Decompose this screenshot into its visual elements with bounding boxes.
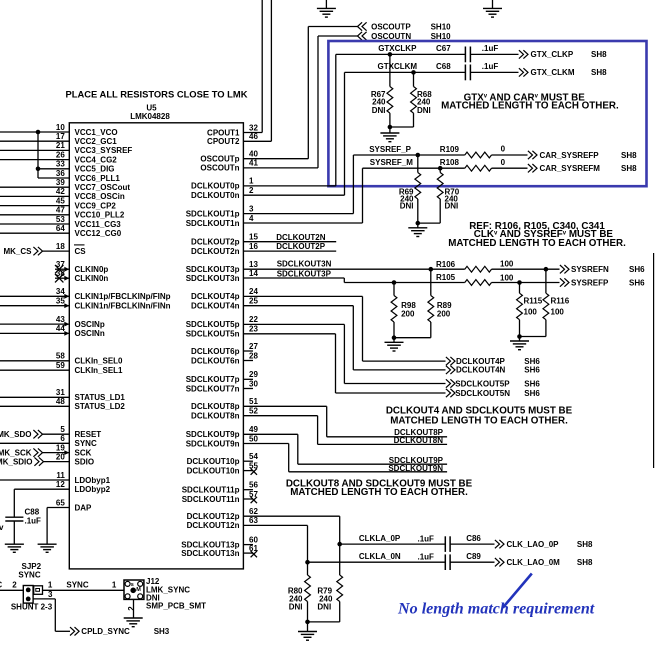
svg-text:DCLKOUT4p: DCLKOUT4p (191, 292, 240, 301)
svg-text:VCC6_PLL1: VCC6_PLL1 (75, 174, 121, 183)
svg-text:SH10: SH10 (431, 32, 452, 41)
svg-text:42: 42 (56, 187, 65, 196)
wire R106 to SYSREFN (492, 268, 560, 270)
svg-text:100: 100 (551, 307, 565, 316)
wire SDCLKOUT9P (243, 433, 297, 435)
svg-text:.1uF: .1uF (482, 62, 499, 71)
svg-text:CLKLA_0N: CLKLA_0N (359, 552, 401, 561)
resistor R67 (389, 54, 391, 86)
svg-text:17: 17 (56, 132, 65, 141)
svg-text:SDCLKOUT11p: SDCLKOUT11p (182, 486, 240, 495)
svg-text:4: 4 (249, 214, 254, 223)
svg-text:30: 30 (249, 379, 258, 388)
junction SYSREFP R115 (517, 280, 522, 285)
svg-text:SH8: SH8 (591, 68, 607, 77)
sheet frame edge (653, 253, 655, 468)
svg-text:OSCINn: OSCINn (75, 329, 105, 338)
svg-text:VCC5_DIG: VCC5_DIG (75, 165, 115, 174)
svg-text:SDCLKOUT11n: SDCLKOUT11n (182, 495, 240, 504)
svg-text:VCC7_OSCout: VCC7_OSCout (75, 183, 131, 192)
svg-text:56: 56 (249, 481, 258, 490)
svg-text:DCLKOUT10p: DCLKOUT10p (187, 457, 240, 466)
junction SDCLKOUT3P R98 (392, 280, 397, 285)
svg-text:VCC4_CG2: VCC4_CG2 (75, 155, 118, 164)
svg-text:SYNC: SYNC (18, 571, 40, 580)
svg-text:24: 24 (249, 287, 258, 296)
svg-text:MK_SCK: MK_SCK (0, 448, 32, 457)
svg-text:VCC1_VCO: VCC1_VCO (75, 128, 118, 137)
wire LDObyp2 to C88 (14, 488, 69, 490)
svg-text:DCLKOUT2p: DCLKOUT2p (191, 238, 240, 247)
svg-text:VCC10_PLL2: VCC10_PLL2 (75, 211, 125, 220)
resistor R79 (339, 544, 341, 575)
svg-text:SH10: SH10 (431, 22, 452, 31)
blue pointer line (503, 574, 532, 608)
resistor R70 (439, 168, 441, 172)
svg-text:100: 100 (524, 307, 538, 316)
svg-text:.1uF: .1uF (25, 517, 42, 526)
svg-text:SH6: SH6 (524, 379, 540, 388)
off-page OSCOUTP (362, 22, 367, 30)
off-page CAR_SYSREFP (528, 151, 533, 159)
svg-text:LDObyp2: LDObyp2 (75, 485, 111, 494)
svg-text:1: 1 (112, 580, 117, 589)
svg-text:53: 53 (56, 215, 65, 224)
svg-text:OSCOUTp: OSCOUTp (200, 155, 239, 164)
svg-text:54: 54 (249, 452, 258, 461)
wire R109 to CAR_SYSREFP (492, 154, 528, 156)
svg-text:DCLKOUT2P: DCLKOUT2P (276, 242, 326, 251)
svg-text:SH3: SH3 (154, 627, 170, 636)
svg-text:28: 28 (249, 351, 258, 360)
junction R67 ground (388, 125, 393, 130)
svg-text:58: 58 (56, 352, 65, 361)
off-page DCLKOUT4N (446, 366, 451, 374)
svg-text:LMK04828: LMK04828 (130, 112, 170, 121)
svg-text:SHUNT 2-3: SHUNT 2-3 (11, 602, 53, 611)
svg-text:52: 52 (249, 407, 258, 416)
svg-text:DCLKOUT4n: DCLKOUT4n (191, 302, 240, 311)
svg-text:.1uF: .1uF (418, 553, 435, 562)
svg-text:11: 11 (56, 471, 65, 480)
junction SYSREFN R116 (544, 267, 549, 272)
wire R115 R116 common node (520, 336, 546, 338)
svg-text:MATCHED LENGTH TO EACH OTHER.: MATCHED LENGTH TO EACH OTHER. (390, 415, 568, 426)
wire DCLKOUT2N stub (243, 241, 336, 243)
junction GTXCLKM R68 (411, 70, 416, 75)
svg-text:SDCLKOUT3n: SDCLKOUT3n (186, 274, 240, 283)
svg-text:CLKLA_0P: CLKLA_0P (359, 534, 401, 543)
svg-text:SDCLKOUT13n: SDCLKOUT13n (181, 549, 239, 558)
svg-text:49: 49 (249, 425, 258, 434)
svg-text:DCLKOUT8N: DCLKOUT8N (394, 436, 444, 445)
svg-text:14: 14 (249, 269, 258, 278)
off-page CLK_LAO_0M (495, 558, 500, 566)
svg-text:25: 25 (249, 297, 258, 306)
svg-text:MK_CS: MK_CS (3, 247, 32, 256)
ground under C88 (5, 543, 24, 545)
svg-text:DCLKOUT4N: DCLKOUT4N (456, 366, 506, 375)
svg-text:DCLKOUT8p: DCLKOUT8p (191, 402, 240, 411)
svg-text:SDCLKOUT3N: SDCLKOUT3N (277, 260, 332, 269)
svg-text:45: 45 (56, 196, 65, 205)
svg-text:DNI: DNI (417, 106, 431, 115)
svg-text:R105: R105 (436, 273, 456, 282)
wire R69 R70 common node (418, 222, 440, 224)
svg-text:SH8: SH8 (621, 164, 637, 173)
svg-text:R109: R109 (440, 145, 460, 154)
capacitor C67 (464, 47, 466, 63)
svg-text:C67: C67 (436, 44, 451, 53)
wire DAP to ground (47, 507, 69, 509)
stub CLKIN0n no-connect X (55, 277, 69, 279)
svg-text:VCC2_GC1: VCC2_GC1 (75, 137, 118, 146)
svg-text:SYSREFP: SYSREFP (571, 278, 609, 287)
junction SYSREF_M R70 (438, 166, 443, 171)
wire CLKIn_SEL1 (0, 369, 69, 371)
svg-text:240: 240 (372, 98, 386, 107)
svg-text:DCLKOUT8n: DCLKOUT8n (191, 412, 240, 421)
off-page CPLD_SYNC (70, 627, 75, 635)
svg-text:CLKIN1p/FBCLKINp/FINp: CLKIN1p/FBCLKINp/FINp (75, 292, 171, 301)
svg-text:1: 1 (48, 580, 53, 589)
resistor R68 (413, 72, 415, 86)
ground under R69 R70 (417, 223, 419, 228)
svg-text:C68: C68 (436, 62, 451, 71)
svg-text:SDCLKOUT1n: SDCLKOUT1n (186, 219, 240, 228)
wire OSCOUTn (243, 167, 318, 169)
svg-text:GTX_CLKM: GTX_CLKM (531, 68, 575, 77)
svg-text:DCLKOUT2N: DCLKOUT2N (276, 233, 326, 242)
svg-text:OSCOUTP: OSCOUTP (371, 22, 411, 31)
wire LDObyp1 (0, 479, 69, 481)
svg-text:SDIO: SDIO (75, 457, 95, 466)
svg-text:SMP_PCB_SMT: SMP_PCB_SMT (146, 602, 206, 611)
svg-text:SDCLKOUT3P: SDCLKOUT3P (277, 270, 332, 279)
svg-text:240: 240 (417, 98, 431, 107)
junction R69 ground (416, 221, 421, 226)
svg-text:200: 200 (401, 309, 415, 318)
svg-text:GTXCLKP: GTXCLKP (378, 44, 417, 53)
svg-text:VCC9_CP2: VCC9_CP2 (75, 201, 117, 210)
wire OSCINp (0, 323, 69, 325)
svg-text:SH8: SH8 (577, 558, 593, 567)
svg-text:SDCLKOUT7n: SDCLKOUT7n (186, 384, 240, 393)
wire R80 R79 common node (308, 621, 340, 623)
stub pin 27 (243, 350, 253, 352)
wire OSCINn (0, 332, 69, 334)
svg-text:31: 31 (56, 388, 65, 397)
svg-text:19: 19 (56, 443, 65, 452)
svg-text:R106: R106 (436, 260, 456, 269)
svg-text:DCLKOUT0p: DCLKOUT0p (191, 182, 240, 191)
svg-text:SH6: SH6 (629, 278, 645, 287)
junction SDCLKOUT3N R89 (429, 267, 434, 272)
stub pin 54 (243, 460, 253, 462)
capacitor C68 (464, 65, 466, 81)
svg-text:No length match requirement: No length match requirement (397, 601, 595, 618)
svg-text:DCLKOUT4P: DCLKOUT4P (456, 357, 506, 366)
ic U5 LMK04828 body (69, 123, 243, 569)
blue highlight box (328, 41, 646, 186)
svg-text:SDCLKOUT5P: SDCLKOUT5P (455, 379, 510, 388)
svg-text:SDCLKOUT5N: SDCLKOUT5N (455, 389, 510, 398)
svg-text:2: 2 (127, 606, 136, 611)
wire into SJP2 pin 2 (0, 589, 23, 591)
wire GTXCLKM net (243, 194, 344, 196)
junction GTXCLKP R67 (388, 52, 393, 57)
svg-text:SDCLKOUT9n: SDCLKOUT9n (186, 439, 240, 448)
svg-text:DNI: DNI (317, 602, 331, 611)
svg-text:65: 65 (56, 498, 65, 507)
junction VCC branch top (36, 130, 41, 135)
wire R108 to CAR_SYSREFM (492, 167, 528, 169)
stub pin 61 no-connect X (243, 552, 253, 554)
capacitor C86 (444, 536, 446, 552)
ground under R115 R116 (519, 337, 521, 342)
svg-text:SYSREF_P: SYSREF_P (369, 145, 411, 154)
off-page DCLKOUT4P (446, 357, 451, 365)
connector J12 pin2 stem (133, 599, 135, 618)
junction SYSREF_P R69 (416, 153, 421, 158)
wire SYNC net to J12 (43, 589, 125, 591)
svg-text:PLACE ALL RESISTORS CLOSE TO L: PLACE ALL RESISTORS CLOSE TO LMK (66, 88, 248, 99)
svg-text:DNI: DNI (372, 106, 386, 115)
jumper SJP2 body (23, 586, 33, 604)
svg-text:63: 63 (249, 516, 258, 525)
resistor R116 (545, 269, 547, 293)
svg-text:SDCLKOUT9N: SDCLKOUT9N (388, 464, 443, 473)
svg-text:R116: R116 (551, 297, 570, 306)
svg-text:32: 32 (249, 123, 258, 132)
ground under DAP (38, 543, 57, 545)
wire VCC branch vertical (37, 132, 39, 178)
svg-text:SDCLKOUT3p: SDCLKOUT3p (186, 265, 240, 274)
svg-text:DNI: DNI (289, 602, 303, 611)
svg-text:SYSREFN: SYSREFN (571, 265, 609, 274)
svg-text:3: 3 (48, 590, 53, 599)
wire SJP2 pin3 to CPLD_SYNC (33, 598, 55, 600)
svg-text:MK_SDO: MK_SDO (0, 430, 32, 439)
svg-text:DCLKOUT2n: DCLKOUT2n (191, 247, 240, 256)
svg-text:0: 0 (501, 145, 506, 154)
stub pin 57 no-connect X (243, 498, 253, 500)
wire SDCLKOUT5N (243, 333, 335, 335)
connector J12 body (124, 580, 144, 599)
svg-text:43: 43 (56, 315, 65, 324)
svg-text:16: 16 (249, 242, 258, 251)
svg-text:MATCHED LENGTH TO EACH OTHER.: MATCHED LENGTH TO EACH OTHER. (448, 238, 626, 249)
svg-text:2: 2 (249, 186, 254, 195)
junction CLKLA_0N R80 (305, 560, 310, 565)
svg-text:MATCHED LENGTH TO EACH OTHER.: MATCHED LENGTH TO EACH OTHER. (441, 101, 619, 112)
svg-text:DAP: DAP (75, 503, 93, 512)
wire DCLKOUT8P (243, 405, 326, 407)
svg-text:DCLKOUT6n: DCLKOUT6n (191, 356, 240, 365)
wire SYNC (0, 442, 69, 444)
wire GTXCLKP net (243, 185, 335, 187)
wire VCC rails from left edge (0, 131, 69, 133)
svg-text:SDCLKOUT1p: SDCLKOUT1p (186, 209, 240, 218)
svg-text:OSCINp: OSCINp (75, 320, 105, 329)
off-page CLK_LAO_0P (495, 540, 500, 548)
svg-text:64: 64 (56, 224, 65, 233)
wire R67 R68 common node (390, 126, 414, 128)
svg-text:33: 33 (56, 160, 65, 169)
svg-text:SDCLKOUT5n: SDCLKOUT5n (186, 330, 240, 339)
svg-text:SCK: SCK (75, 448, 92, 457)
svg-text:C: C (0, 580, 2, 589)
svg-text:SH6: SH6 (524, 389, 540, 398)
wire SDCLKOUT9N (243, 443, 288, 445)
junction VCC branch pin33 (36, 167, 41, 172)
wire CLKLA_0N net (243, 524, 307, 526)
svg-text:.1uF: .1uF (418, 534, 435, 543)
ground under R98 R89 (393, 338, 395, 343)
svg-text:VCC8_OSCin: VCC8_OSCin (75, 192, 125, 201)
wire CPOUT1 up (243, 132, 262, 134)
wire CLKIn_SEL0 (0, 360, 69, 362)
svg-text:59: 59 (56, 361, 65, 370)
svg-text:C88: C88 (25, 508, 40, 517)
resistor R115 (519, 283, 521, 294)
ground under R67 R68 (389, 127, 391, 133)
svg-text:23: 23 (249, 325, 258, 334)
wire C67 to GTX_CLKP (470, 53, 518, 55)
svg-text:44: 44 (56, 324, 65, 333)
svg-text:R108: R108 (440, 158, 460, 167)
wire DCLKOUT8N (243, 415, 317, 417)
svg-text:29: 29 (249, 370, 258, 379)
svg-text:200: 200 (437, 309, 451, 318)
wire CLKLA_0P net (243, 515, 339, 517)
svg-text:SH8: SH8 (591, 50, 607, 59)
svg-text:CLKIn_SEL0: CLKIn_SEL0 (75, 357, 124, 366)
svg-text:SDCLKOUT5p: SDCLKOUT5p (186, 320, 240, 329)
ground top-right (492, 0, 494, 8)
jumper SJP2 pin1 pad (34, 586, 43, 595)
off-page SDCLKOUT5P (446, 379, 451, 387)
svg-text:SH6: SH6 (524, 366, 540, 375)
svg-text:MATCHED LENGTH TO EACH OTHER.: MATCHED LENGTH TO EACH OTHER. (290, 487, 468, 498)
svg-text:6: 6 (60, 434, 65, 443)
svg-text:26: 26 (56, 150, 65, 159)
junction R115 ground (517, 334, 522, 339)
off-page SYSREFP (560, 278, 565, 286)
svg-text:36: 36 (56, 169, 65, 178)
svg-text:SYNC: SYNC (66, 580, 88, 589)
stub pin 29 (243, 378, 253, 380)
off-page GTX_CLKM (519, 68, 524, 76)
svg-text:3: 3 (249, 204, 254, 213)
off-page GTX_CLKP (519, 50, 524, 58)
svg-text:RESET: RESET (75, 430, 102, 439)
svg-text:48: 48 (56, 397, 65, 406)
wire OSCOUTp (243, 158, 308, 160)
svg-text:27: 27 (249, 342, 258, 351)
svg-text:51: 51 (249, 397, 258, 406)
svg-text:R115: R115 (524, 297, 543, 306)
resistor R98 (393, 283, 395, 296)
off-page SDCLKOUT5N (446, 389, 451, 397)
svg-text:47: 47 (56, 206, 65, 215)
svg-text:M: M (136, 587, 141, 593)
off-page SYSREFN (560, 265, 565, 273)
wire CLKIN1p (0, 295, 69, 297)
wire R105 to SYSREFP (492, 282, 560, 284)
svg-text:STATUS_LD1: STATUS_LD1 (75, 393, 126, 402)
stub pin 28 (243, 360, 253, 362)
capacitor C88 (5, 516, 23, 518)
svg-text:v: v (0, 523, 4, 532)
svg-text:41: 41 (249, 159, 258, 168)
wire C89 to CLK_LAO_0M (450, 561, 494, 563)
svg-text:DCLKOUT12p: DCLKOUT12p (187, 512, 240, 521)
svg-text:C86: C86 (466, 534, 481, 543)
wire DCLKOUT2P stub (243, 250, 336, 252)
svg-text:GTXCLKM: GTXCLKM (378, 62, 418, 71)
svg-text:CAR_SYSREFM: CAR_SYSREFM (540, 164, 601, 173)
stub pin 30 (243, 388, 253, 390)
svg-text:CLKIN0n: CLKIN0n (75, 274, 109, 283)
wire SYSREF_P net (243, 213, 353, 215)
svg-text:21: 21 (56, 141, 65, 150)
stub pin 55 no-connect X (243, 470, 253, 472)
capacitor C89 (444, 554, 446, 570)
svg-text:SH8: SH8 (577, 540, 593, 549)
svg-text:SYNC: SYNC (75, 439, 97, 448)
stub pin 60 (243, 544, 253, 546)
svg-text:CPOUT2: CPOUT2 (207, 137, 240, 146)
svg-text:62: 62 (249, 507, 258, 516)
svg-text:100: 100 (500, 273, 514, 282)
wire R98 R89 common node (394, 337, 431, 339)
svg-text:VCC3_SYSREF: VCC3_SYSREF (75, 146, 133, 155)
svg-text:DCLKOUT12n: DCLKOUT12n (187, 521, 240, 530)
wire SDCLKOUT5P (243, 323, 344, 325)
svg-text:CAR_SYSREFP: CAR_SYSREFP (540, 151, 600, 160)
svg-text:SH8: SH8 (621, 151, 637, 160)
junction R98 ground (392, 335, 397, 340)
svg-text:SYSREF_M: SYSREF_M (370, 158, 413, 167)
wire C86 to CLK_LAO_0P (450, 543, 494, 545)
svg-text:STATUS_LD2: STATUS_LD2 (75, 402, 126, 411)
svg-text:SH6: SH6 (629, 265, 645, 274)
resistor R80 (307, 562, 309, 575)
svg-text:DCLKOUT6p: DCLKOUT6p (191, 347, 240, 356)
svg-text:46: 46 (249, 132, 258, 141)
svg-text:18: 18 (56, 242, 65, 251)
svg-text:CLK_LAO_0M: CLK_LAO_0M (507, 558, 561, 567)
svg-text:LDObyp1: LDObyp1 (75, 476, 111, 485)
junction CLKLA_0P R79 (337, 542, 342, 547)
svg-text:MK_SDIO: MK_SDIO (0, 457, 33, 466)
wire DCLKOUT4N (243, 305, 353, 307)
svg-text:s: s (131, 582, 134, 588)
svg-text:DCLKOUT10n: DCLKOUT10n (187, 466, 240, 475)
svg-text:35: 35 (56, 297, 65, 306)
svg-text:100: 100 (500, 260, 514, 269)
svg-text:22: 22 (249, 315, 258, 324)
svg-text:CLKIN1n/FBCLKINn/FINn: CLKIN1n/FBCLKINn/FINn (75, 302, 171, 311)
ground top-left (325, 0, 327, 8)
svg-text:C89: C89 (466, 552, 481, 561)
svg-text:1: 1 (249, 177, 254, 186)
svg-text:40: 40 (249, 150, 258, 159)
svg-text:GTX_CLKP: GTX_CLKP (531, 50, 574, 59)
svg-text:12: 12 (56, 480, 65, 489)
svg-text:VCC12_CG0: VCC12_CG0 (75, 229, 122, 238)
